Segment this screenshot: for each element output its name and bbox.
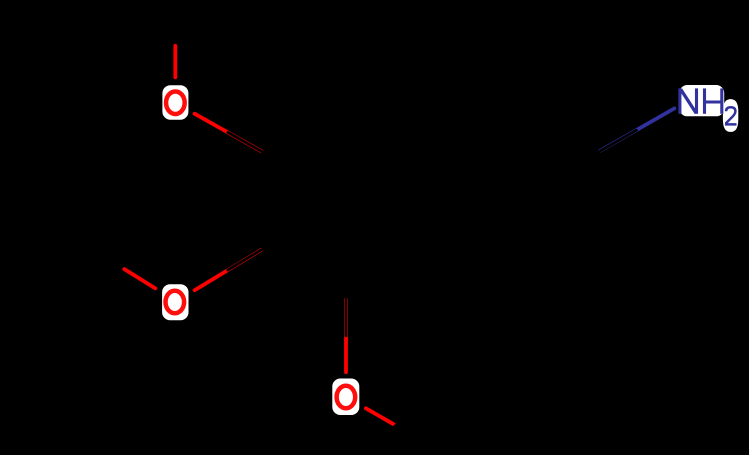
- bond O1-CH3a upper black half (invisible): [174, 7, 178, 44]
- bond O3-CH3c black half (invisible): [395, 426, 430, 445]
- halo: white background of atom O2: [162, 284, 188, 320]
- bond B-N black overdraw (carbon half, leaves blue fringe): [599, 130, 636, 151]
- atom N: letter H (blue, vector strokes): [705, 88, 722, 113]
- halo: white background of atom O3: [332, 379, 359, 416]
- halo: white background of subscript 2: [723, 99, 738, 132]
- bond O1-CH3a red half (O to midpoint): [173, 46, 177, 78]
- wire: benzene ring bonds (black, invisible on black bg): [263, 104, 598, 298]
- bond C3-O3 red underlay (full length): [344, 299, 348, 372]
- bond C3-O3 black overdraw (carbon half, leaves red fringe): [345, 298, 348, 336]
- halo: white background of atom O1: [162, 85, 188, 120]
- halo: white background of NH label: [679, 85, 724, 116]
- bond B-N blue underlay (full length): [600, 108, 675, 151]
- bond O1-C1 red underlay (full length): [195, 114, 262, 152]
- atom N: subscript 2 (blue, vector path): [726, 107, 736, 124]
- bond O3-CH3c red half: [366, 408, 394, 424]
- bond O1-C1 black overdraw (carbon half, leaves red fringe): [228, 132, 262, 151]
- bond O2-CH3b black half (invisible): [91, 254, 123, 269]
- atom O3 (red O glyph): [337, 386, 356, 409]
- bond O2-CH3b red half: [124, 269, 155, 288]
- atom O2 (red O glyph): [166, 291, 185, 314]
- bond O2-C2 red underlay (full length): [195, 250, 262, 290]
- atom O1 (red O glyph, drawn as ellipse): [166, 91, 185, 114]
- atom N: letter N (blue, vector strokes): [680, 88, 697, 113]
- bond O2-C2 black overdraw (carbon half, leaves red fringe): [228, 249, 262, 270]
